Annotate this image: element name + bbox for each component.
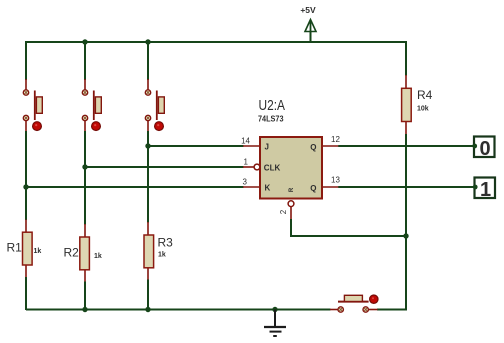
resistor R2 [64,237,102,270]
resistor R4 [402,88,433,122]
wire: column 2 switch-to-R2 [84,121,86,238]
svg-text:1k: 1k [34,248,42,255]
pin name R (reset, rotated) [289,187,295,192]
wire: column 3 switch-to-R3 [147,121,149,236]
wire: column 1 R1-to-ground rail [25,264,27,310]
pin number 2 (rotated) [279,209,288,214]
pin number 12 [331,135,340,144]
switch SW2 [82,90,101,131]
op-amp U2:A (74LS73 JK flip-flop) body [258,97,322,199]
pin number 1 [244,158,249,167]
pin 14 stub (J) [243,145,260,147]
svg-text:14: 14 [241,137,250,146]
junction J net / column 3 [145,143,150,148]
wire: Q output net to probe 0 [338,145,474,147]
svg-text:R1: R1 [7,241,23,255]
svg-text:2: 2 [279,209,288,214]
svg-text:0: 0 [479,138,490,160]
wire: CLK input net [85,166,244,168]
svg-text:3: 3 [243,178,248,187]
wire: column 3 rail-to-switch [147,41,149,90]
svg-text:CLK: CLK [264,163,281,172]
switch SW3 [145,90,164,131]
svg-text:13: 13 [331,176,340,185]
junction ground rail / ground symbol [272,307,277,312]
junction on top rail at column 3 [145,39,150,44]
switch SW1 [23,90,42,131]
resistor R1 [7,232,42,265]
wire: reset net down and right [291,219,406,236]
wire: J input net [148,145,244,147]
pin 13 stub (Qbar) [323,186,339,188]
junction ground rail / column 2 [82,307,87,312]
resistor R3 [144,235,173,268]
svg-text:+5V: +5V [300,5,316,15]
svg-text:R4: R4 [417,88,433,102]
logic probe showing 0 [472,137,494,161]
ground [264,310,286,337]
junction CLK net / column 2 [82,164,87,169]
svg-text:1k: 1k [158,252,166,259]
push button SW4 (reset button) [338,295,378,312]
svg-text:74LS73: 74LS73 [258,115,284,124]
svg-text:Q: Q [310,143,316,152]
wire: column 3 R3-to-ground rail [147,267,149,310]
junction K net / column 1 [23,184,28,189]
pin 1 stub (CLK) [243,164,260,170]
svg-text:Q: Q [310,184,316,193]
svg-text:J: J [265,143,269,152]
wire: ground rail [26,309,338,311]
junction reset net / R4 column [403,233,408,238]
pin name Q (bottom) [310,184,316,193]
svg-text:K: K [265,184,271,193]
svg-text:R: R [289,187,295,192]
pin number 13 [331,176,340,185]
wire: column 2 rail-to-switch [84,41,86,90]
svg-text:10k: 10k [417,106,429,113]
svg-text:1: 1 [244,158,249,167]
wire: column 2 R2-to-ground rail [84,269,86,310]
wire: column 1 switch-to-R1 [25,121,27,233]
junction ground rail / column 3 [145,307,150,312]
svg-text:U2:A: U2:A [259,97,286,114]
wire: Qbar output net to probe 1 [338,186,474,188]
junction on top rail at column 2 [82,39,87,44]
pin number 3 [243,178,248,187]
power +5V terminal [300,5,316,42]
pin name CLK [264,163,281,172]
pin name J [265,143,269,152]
wire: column 1 rail-to-switch [25,41,27,90]
logic probe showing 1 [473,178,495,202]
svg-text:R2: R2 [64,246,80,260]
wire: R4 column down to button [369,121,406,309]
pin 12 stub (Q) [323,145,339,147]
svg-text:1k: 1k [94,253,102,260]
pin number 14 [241,137,250,146]
svg-text:12: 12 [331,135,340,144]
svg-text:1: 1 [480,179,491,201]
pin 3 stub (K) [243,186,260,188]
pin 2 stub (R reset, bottom of U2:A) [288,201,294,220]
wire: +5V top supply rail [26,41,406,43]
svg-text:R3: R3 [158,236,174,250]
pin name K [265,184,271,193]
wire: K input net [26,186,244,188]
wire: R4 column from rail [405,41,407,88]
pin name Q (top) [310,143,316,152]
